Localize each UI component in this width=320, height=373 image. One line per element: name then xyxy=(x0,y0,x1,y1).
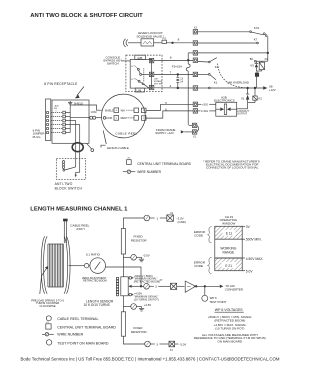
length cable leader xyxy=(101,131,106,148)
legend test point circle xyxy=(46,340,51,345)
svg-text:(GND): (GND) xyxy=(178,220,186,224)
terminal X1 board row1 xyxy=(167,215,174,221)
svg-text:KEY SW: KEY SW xyxy=(154,84,162,86)
anti-two block switch dashed box xyxy=(56,159,85,180)
LMI overload dashed linkage arc xyxy=(218,64,247,88)
label lever lockout xyxy=(137,31,165,38)
reel terminal 5 xyxy=(114,116,119,121)
svg-text:SHIELD: SHIELD xyxy=(105,109,114,112)
svg-text:TEST POINT ON MAIN BOARD: TEST POINT ON MAIN BOARD xyxy=(57,341,109,345)
central unit terminal board connector lower xyxy=(116,277,128,296)
svg-text:8: 8 xyxy=(178,37,180,41)
svg-text:4.50V MAX.: 4.50V MAX. xyxy=(246,257,264,261)
relay contact K2 xyxy=(198,58,217,63)
svg-text:LENGTH CABLE: LENGTH CABLE xyxy=(107,146,129,150)
key switch pole 2 xyxy=(134,78,147,87)
svg-text:LMI OVERLOAD: LMI OVERLOAD xyxy=(227,80,249,84)
connector pin bottom circle xyxy=(128,293,133,296)
reel wire RED row xyxy=(126,117,133,119)
shield drain ground below receptacle xyxy=(87,143,94,151)
WP6 voltages underline xyxy=(215,311,244,313)
wire 5 reel to +SIG xyxy=(146,104,193,110)
svg-text:SUPPLY +12V: SUPPLY +12V xyxy=(155,131,174,135)
svg-text:RESISTOR: RESISTOR xyxy=(131,330,148,334)
svg-text:V1: V1 xyxy=(241,96,245,100)
legend wire number symbol lower xyxy=(42,333,54,336)
terminal X column T3 y52.9 xyxy=(193,51,197,55)
terminal X column T2 y43 xyxy=(193,41,197,45)
6 pin jumper plug xyxy=(46,99,51,141)
svg-text:V3: V3 xyxy=(250,63,254,67)
console terminal row8 xyxy=(149,58,153,62)
svg-text:3: 3 xyxy=(156,342,158,346)
label ch1 operating window xyxy=(220,215,238,226)
cable reel drum circle xyxy=(102,94,146,138)
receptacle pins xyxy=(63,111,66,134)
cable reel assy drum right flange xyxy=(64,236,70,293)
svg-text:WINDOW: WINDOW xyxy=(222,222,235,226)
inline connector pair xyxy=(89,116,102,119)
svg-text:TEST POINT: TEST POINT xyxy=(209,300,226,304)
terminal X1 +12V supply y126.7 xyxy=(189,123,199,134)
reel wire WH row xyxy=(126,109,133,111)
length sensor annotation dashes min xyxy=(132,277,134,279)
wire +SIG xyxy=(198,103,216,105)
svg-text:RED: RED xyxy=(121,117,126,120)
wire row y43 to K7 contact xyxy=(198,42,259,44)
signal output arrow from connector xyxy=(128,285,143,288)
svg-text:PLUG: PLUG xyxy=(33,135,42,139)
svg-text:8: 8 xyxy=(170,56,172,60)
svg-text:LENGTH MEASURING CHANNEL 1: LENGTH MEASURING CHANNEL 1 xyxy=(30,207,128,213)
coupling circle xyxy=(84,264,88,268)
wire 7 row y74.4 xyxy=(154,74,193,76)
WP6 test point xyxy=(202,286,208,301)
console terminal row7 xyxy=(149,72,153,76)
legend cable reel terminal circle xyxy=(46,316,51,321)
terminal X column T6 y88 xyxy=(193,86,197,90)
svg-text:ASS'Y: ASS'Y xyxy=(76,227,85,231)
svg-text:2: 2 xyxy=(155,285,157,289)
svg-text:WH: WH xyxy=(121,109,125,112)
A2B electronics module U1 xyxy=(216,102,237,116)
terminal X column T4 y60.2 xyxy=(193,58,197,62)
LIM switch section box xyxy=(147,87,149,89)
test point circle row3 xyxy=(145,341,169,347)
drum output shaft wire xyxy=(69,265,85,267)
arrow to A/D converter xyxy=(220,285,224,288)
svg-text:WIRE NUMBER: WIRE NUMBER xyxy=(57,332,83,336)
window voltage labels xyxy=(245,225,263,273)
svg-text:(RETRACTED BOOM): (RETRACTED BOOM) xyxy=(214,318,245,322)
wire lockout output xyxy=(237,103,255,109)
relay coil K3 with diode V3 xyxy=(254,60,267,73)
svg-text:K1: K1 xyxy=(214,81,218,85)
svg-text:RESISTOR: RESISTOR xyxy=(131,239,148,243)
svg-text:Bode Technical Services Inc: Bode Technical Services Inc | US Toll Fr… xyxy=(21,356,280,361)
terminal X board signal row xyxy=(171,283,185,289)
console bypass key switch dashed enclosure xyxy=(126,55,162,92)
svg-text:1: 1 xyxy=(156,216,158,220)
+5V feed line row y218 xyxy=(123,218,143,229)
fixed resistor R2 xyxy=(121,312,144,344)
key linkage dashed xyxy=(143,68,145,82)
svg-text:(10 TURNS ON POT): (10 TURNS ON POT) xyxy=(215,326,244,330)
solenoid valve L1 lever lockout xyxy=(123,39,161,47)
receptacle label leader arrow xyxy=(75,87,84,99)
buffer amplifier xyxy=(185,281,220,292)
svg-text:RETRACTED BOOM: RETRACTED BOOM xyxy=(83,280,107,283)
test point circle row1 xyxy=(144,215,167,221)
preload spring arrow xyxy=(40,266,48,294)
svg-text:CLOCKWISE: CLOCKWISE xyxy=(40,304,56,308)
svg-text:(10 TURNS ON POT): (10 TURNS ON POT) xyxy=(134,297,159,301)
wires receptacle to anti-two-block switch xyxy=(76,143,80,172)
error code brace bottom xyxy=(208,257,212,273)
svg-text:C-SIG: C-SIG xyxy=(201,109,208,113)
diode V1 xyxy=(246,88,249,103)
svg-text:3:1 RATIO: 3:1 RATIO xyxy=(86,252,101,256)
reel terminal 6 xyxy=(114,108,119,113)
svg-text:(RETRACTED BOOM): (RETRACTED BOOM) xyxy=(134,279,160,283)
error code brace top xyxy=(208,227,212,243)
svg-text:.500V MIN.: .500V MIN. xyxy=(245,238,262,242)
legend terminal square upper xyxy=(127,160,132,165)
svg-text:ANTI-TWO: ANTI-TWO xyxy=(55,182,73,186)
wire 4 row y88 LMI output xyxy=(154,87,263,89)
svg-text:8 PIN RECEPTACLE: 8 PIN RECEPTACLE xyxy=(44,82,78,86)
A2B switch section box xyxy=(122,55,152,92)
svg-text:K7A: K7A xyxy=(254,26,260,30)
wire 8 row y60.2 xyxy=(154,59,193,61)
label LIM BYPASS KEY SW xyxy=(154,79,163,86)
terminal +SIG y104.3 xyxy=(193,102,197,106)
8 pin receptacle box xyxy=(52,100,89,143)
anti-two block switch contact xyxy=(63,161,80,178)
annotation minimum signal xyxy=(134,274,160,284)
reel terminal 1 xyxy=(134,108,146,113)
heavy cable grommet ellipse xyxy=(72,143,83,152)
svg-text:COM: COM xyxy=(106,117,112,120)
operating window box xyxy=(215,226,242,270)
drum cable exit pair xyxy=(63,219,67,243)
receptacle pin tiny labels xyxy=(54,105,59,113)
svg-text:OUTPUT: OUTPUT xyxy=(237,113,247,116)
svg-text:CONNECTION OF LOCKOUT SIGNA: CONNECTION OF LOCKOUT SIGNAL xyxy=(206,166,259,170)
svg-text:LIM: LIM xyxy=(136,89,141,93)
pot wiper wire to signal node xyxy=(106,267,142,286)
svg-text:ELECTRONICS: ELECTRONICS xyxy=(214,99,235,103)
svg-text:ANTI TWO BLOCK & SHUTOFF CIRCU: ANTI TWO BLOCK & SHUTOFF CIRCUIT xyxy=(30,13,143,19)
reel pin circle COM xyxy=(103,117,106,120)
svg-text:K2: K2 xyxy=(258,96,262,100)
wire 6 reel to C-SIG xyxy=(146,111,193,118)
svg-text:- 5.0V: - 5.0V xyxy=(179,342,187,346)
svg-text:ON MAIN BOARD: ON MAIN BOARD xyxy=(217,340,243,344)
svg-text:4: 4 xyxy=(170,84,172,88)
svg-text:CENTRAL UNIT TERMINAL BOARD: CENTRAL UNIT TERMINAL BOARD xyxy=(57,325,116,329)
svg-text:E 11: E 11 xyxy=(226,231,233,235)
drum winding xyxy=(48,244,63,287)
node on wire 8 solenoid row xyxy=(172,42,174,44)
svg-text:5.0V: 5.0V xyxy=(246,269,254,273)
svg-text:SOLENOID VALVE *: SOLENOID VALVE * xyxy=(137,34,165,38)
svg-text:CENTRAL UNIT TERMINAL BOARD: CENTRAL UNIT TERMINAL BOARD xyxy=(137,162,191,166)
svg-text:E 21: E 21 xyxy=(225,264,232,268)
relay contact K1 xyxy=(198,74,216,80)
svg-text:CONVERTER: CONVERTER xyxy=(225,287,243,291)
svg-text:K3: K3 xyxy=(265,57,269,61)
terminal black square below K3 xyxy=(255,73,258,88)
svg-text:CODE: CODE xyxy=(194,264,203,268)
svg-text:SHIELD: SHIELD xyxy=(74,101,83,105)
arrow to U8 +12V xyxy=(263,86,267,89)
annotation maximum signal xyxy=(134,292,159,302)
receptacle internal bus wires xyxy=(65,105,89,143)
terminal X1 board row3 xyxy=(169,341,178,347)
label A2B electronics xyxy=(214,96,235,103)
svg-text:-0.5V: -0.5V xyxy=(143,254,150,258)
wire row y52.9 xyxy=(188,52,268,60)
fuse F3 xyxy=(162,40,193,43)
svg-text:F2=15A: F2=15A xyxy=(172,64,182,68)
note refer to crane xyxy=(203,159,260,169)
test point +4.5V with ground xyxy=(123,296,144,312)
from crane supply arrow xyxy=(181,130,193,133)
svg-text:7: 7 xyxy=(170,70,172,74)
legend wire number symbol upper xyxy=(123,170,136,173)
svg-text:K2: K2 xyxy=(215,65,219,69)
terminal X column T1 y31.8 xyxy=(193,30,197,34)
relay coil K2 xyxy=(253,88,257,103)
fuse F2 on +12V feed xyxy=(186,60,190,125)
wire rail +12V right xyxy=(267,36,269,61)
window voltage tick marks xyxy=(242,226,245,270)
terminal C-SIG y110.9 xyxy=(193,109,197,113)
svg-text:CABLE REEL TERMINAL: CABLE REEL TERMINAL xyxy=(57,317,98,321)
shield ground inside receptacle xyxy=(68,101,72,105)
svg-text:CODE: CODE xyxy=(194,233,203,237)
svg-text:BYPASS: BYPASS xyxy=(154,80,163,83)
potentiometer 3:1 ratio xyxy=(89,258,106,274)
key switch pole 1 xyxy=(134,65,149,75)
receptacle COM output wire xyxy=(89,105,102,110)
svg-text:COM: COM xyxy=(91,111,97,114)
svg-text:+SIG: +SIG xyxy=(202,103,208,107)
svg-text:1: 1 xyxy=(56,111,57,113)
svg-text:+4.5V: +4.5V xyxy=(144,303,152,307)
wire row y31.8 to relay K7A xyxy=(198,31,268,37)
cable reel assy drum left flange xyxy=(41,236,47,293)
reel internal labels xyxy=(105,109,126,120)
svg-text:+12V: +12V xyxy=(269,88,276,92)
connector pin top circle xyxy=(128,277,133,280)
svg-text:WIRE NUMBER: WIRE NUMBER xyxy=(137,170,161,174)
test point -0.5V with ground xyxy=(123,254,144,261)
label console bypass key switch xyxy=(103,55,122,65)
test point circle signal row xyxy=(144,284,171,290)
legend central unit terminal square xyxy=(46,324,51,329)
fixed resistor R1 xyxy=(121,229,125,277)
svg-text:10 K Ω/10 TURNS: 10 K Ω/10 TURNS xyxy=(84,303,110,307)
svg-text:K7: K7 xyxy=(254,37,258,41)
svg-text:A2B: A2B xyxy=(137,56,142,60)
svg-text:RANGE: RANGE xyxy=(223,250,236,254)
svg-text:WP 6 VOLTAGES: WP 6 VOLTAGES xyxy=(215,308,243,312)
console terminal row4 xyxy=(149,85,153,89)
reel terminal 2 xyxy=(134,116,146,121)
svg-text:SWITCH: SWITCH xyxy=(107,61,119,65)
bypass contacts 13 14 xyxy=(176,74,179,88)
terminal X column T5 y74.4 xyxy=(193,72,197,76)
svg-text:CABLE REEL: CABLE REEL xyxy=(115,131,137,135)
wire C-SIG xyxy=(198,110,216,112)
svg-text:F3: F3 xyxy=(163,36,167,40)
svg-text:BLOCK SWITCH: BLOCK SWITCH xyxy=(55,187,83,191)
jumper plug to receptacle pin wires xyxy=(51,113,63,133)
label preload spring xyxy=(31,298,64,308)
